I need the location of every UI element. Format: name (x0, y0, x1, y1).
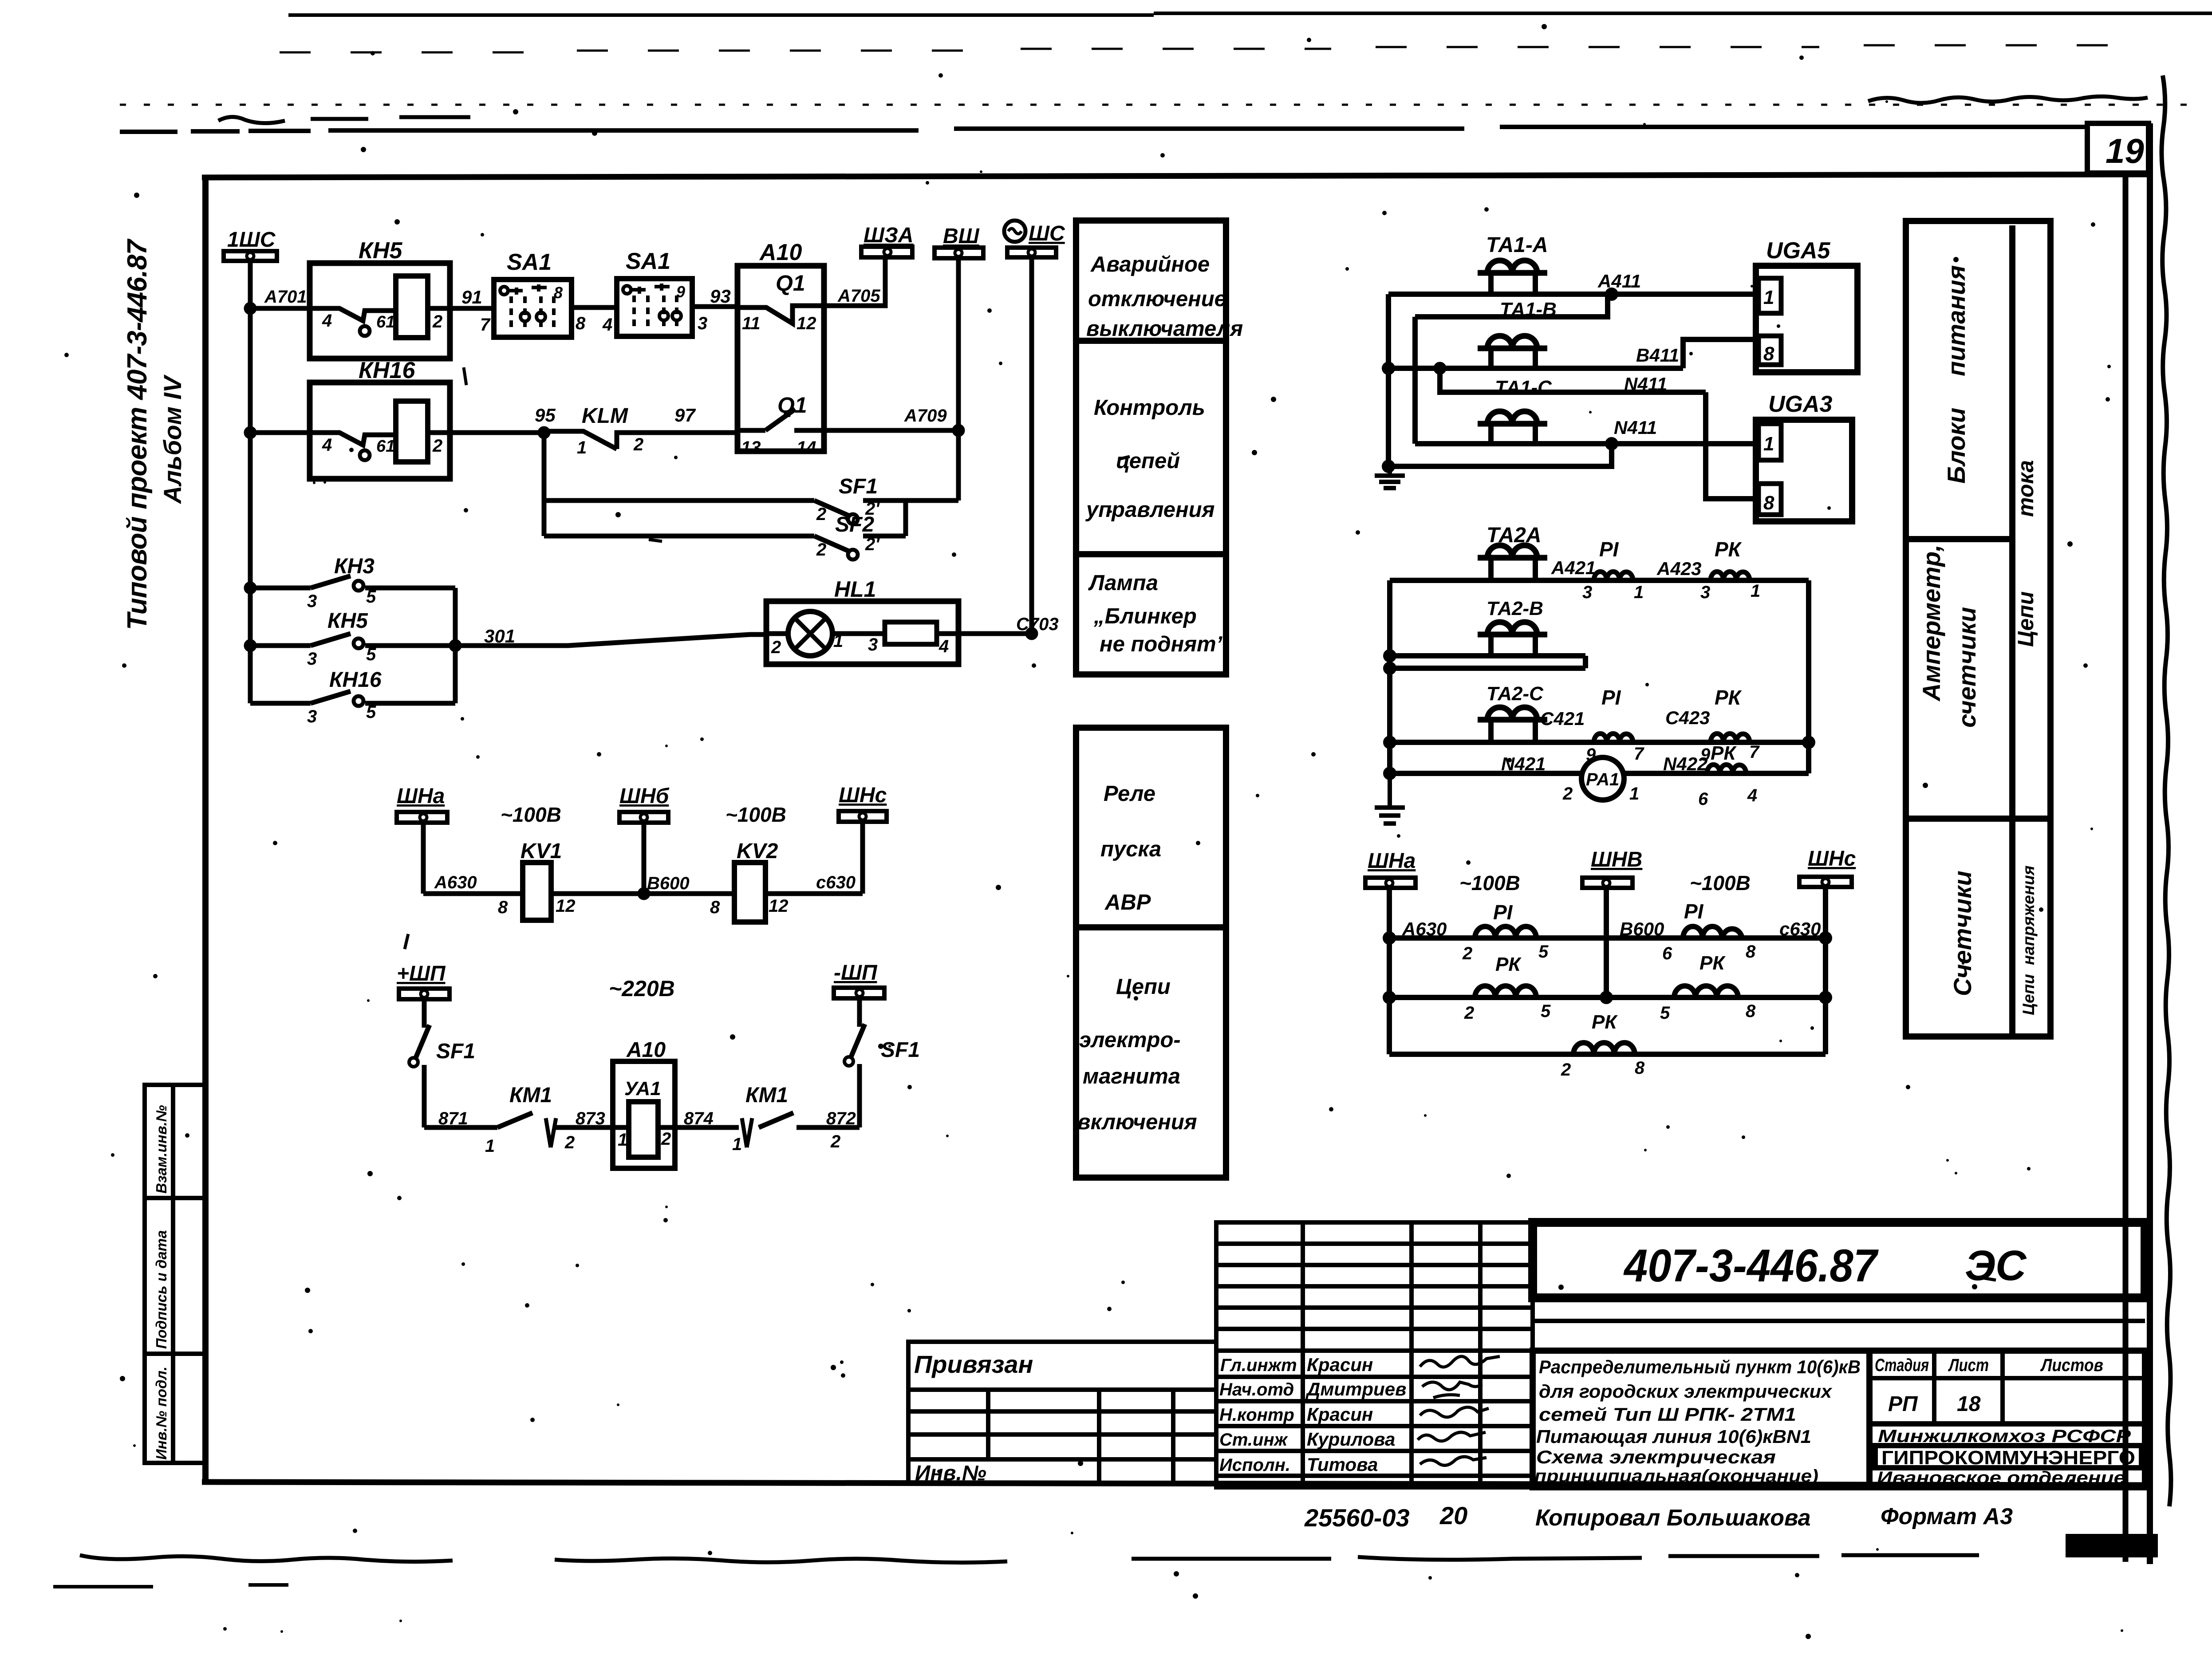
svg-text:+ШП: +ШП (397, 962, 446, 985)
svg-text:1: 1 (577, 438, 587, 457)
svg-text:UGA3: UGA3 (1768, 391, 1833, 417)
svg-text:Амперметр,: Амперметр, (1917, 544, 1945, 702)
svg-text:8: 8 (1746, 1001, 1756, 1021)
svg-text:7: 7 (1634, 744, 1644, 764)
svg-text:1: 1 (833, 631, 843, 651)
svg-text:питания: питания (1942, 265, 1970, 376)
svg-text:ШЗА: ШЗА (864, 224, 914, 247)
svg-text:2: 2 (830, 1132, 840, 1151)
svg-text:Привязан: Привязан (914, 1350, 1033, 1378)
svg-text:КН3: КН3 (334, 555, 375, 578)
svg-text:С703: С703 (1016, 615, 1059, 634)
svg-text:872: 872 (826, 1109, 856, 1128)
svg-text:Курилова: Курилова (1307, 1429, 1395, 1450)
svg-text:3: 3 (307, 591, 317, 611)
svg-text:UGA5: UGA5 (1766, 238, 1831, 264)
svg-text:Красин: Красин (1307, 1404, 1373, 1425)
svg-text:301: 301 (484, 626, 515, 646)
svg-text:5: 5 (366, 702, 376, 722)
svg-text:А630: А630 (1402, 918, 1447, 939)
svg-text:ТА1-С: ТА1-С (1495, 377, 1552, 398)
svg-text:~220В: ~220В (609, 976, 675, 1001)
svg-text:Цепи: Цепи (1116, 975, 1171, 999)
svg-text:АВР: АВР (1104, 891, 1151, 914)
svg-text:КМ1: КМ1 (745, 1084, 788, 1107)
svg-text:РI: РI (1684, 900, 1704, 923)
svg-text:А701: А701 (264, 287, 307, 307)
svg-text:А705: А705 (837, 286, 880, 306)
svg-text:1: 1 (1751, 581, 1760, 601)
svg-text:РА1: РА1 (1586, 770, 1619, 789)
svg-text:20: 20 (1439, 1502, 1467, 1529)
svg-text:сетей Тип Ш РПК- 2ТМ1: сетей Тип Ш РПК- 2ТМ1 (1539, 1404, 1796, 1425)
svg-text:С421: С421 (1540, 708, 1585, 729)
svg-text:8: 8 (1763, 492, 1774, 514)
svg-text:1: 1 (1634, 583, 1644, 602)
svg-text:5: 5 (1541, 1001, 1551, 1021)
svg-text:KLM: KLM (582, 404, 628, 428)
svg-text:Стадия: Стадия (1875, 1356, 1929, 1375)
svg-text:ВШ: ВШ (943, 225, 980, 248)
svg-text:4: 4 (322, 311, 332, 331)
svg-text:Q1: Q1 (776, 271, 805, 296)
svg-text:12: 12 (796, 314, 816, 333)
svg-text:SF2: SF2 (835, 513, 874, 536)
svg-text:8: 8 (498, 898, 508, 917)
svg-text:ТА2А: ТА2А (1486, 524, 1542, 547)
svg-text:7: 7 (480, 315, 491, 335)
svg-text:3: 3 (307, 707, 317, 726)
svg-text:19: 19 (2106, 131, 2144, 170)
svg-text:А10: А10 (759, 240, 802, 265)
svg-text:с630: с630 (1779, 918, 1821, 939)
svg-text:ГИПРОКОММУНЭНЕРГО: ГИПРОКОММУНЭНЕРГО (1881, 1447, 2135, 1469)
svg-text:873: 873 (576, 1109, 605, 1128)
svg-text:Альбом IV: Альбом IV (158, 374, 186, 504)
svg-text:2: 2 (432, 312, 442, 331)
svg-text:Ивановское отделение: Ивановское отделение (1877, 1468, 2125, 1488)
svg-text:25560-03: 25560-03 (1304, 1504, 1410, 1532)
svg-text:8: 8 (710, 898, 720, 917)
svg-text:электро-: электро- (1079, 1028, 1181, 1052)
svg-text:Инв.№: Инв.№ (915, 1462, 986, 1485)
svg-text:SA1: SA1 (507, 249, 552, 275)
svg-text:4: 4 (322, 435, 332, 455)
svg-text:принципиальная(окончание): принципиальная(окончание) (1534, 1466, 1818, 1486)
svg-text:5: 5 (366, 587, 376, 607)
svg-text:61: 61 (376, 313, 395, 331)
svg-text:А10: А10 (626, 1038, 666, 1062)
svg-text:871: 871 (438, 1109, 468, 1128)
svg-text:КН16: КН16 (359, 358, 415, 383)
svg-text:РК: РК (1699, 952, 1726, 974)
svg-text:Блоки: Блоки (1942, 408, 1970, 484)
svg-text:Минжилкомхоз РСФСР: Минжилкомхоз РСФСР (1878, 1427, 2131, 1446)
svg-text:1: 1 (1629, 784, 1639, 804)
svg-text:12: 12 (556, 896, 576, 916)
svg-text:95: 95 (535, 405, 556, 426)
svg-text:7: 7 (1749, 742, 1760, 762)
svg-text:11: 11 (742, 314, 761, 333)
svg-text:выключателя: выключателя (1086, 317, 1243, 341)
svg-text:93: 93 (710, 286, 731, 307)
svg-text:6: 6 (1698, 789, 1708, 809)
svg-text:8: 8 (1763, 343, 1774, 365)
svg-text:ШНВ: ШНВ (1591, 848, 1642, 871)
svg-text:Распределительный пункт 10(6)к: Распределительный пункт 10(6)кВ (1539, 1356, 1861, 1377)
svg-text:РК: РК (1495, 954, 1522, 975)
svg-text:2: 2 (1464, 1003, 1474, 1023)
svg-text:РI: РI (1601, 686, 1621, 709)
svg-text:-ШП: -ШП (834, 961, 878, 985)
svg-text:ШНс: ШНс (1808, 847, 1856, 871)
svg-text:Ст.инж: Ст.инж (1219, 1430, 1289, 1450)
svg-text:3: 3 (1582, 583, 1592, 602)
svg-text:Подпись и дата: Подпись и дата (153, 1230, 170, 1349)
svg-text:А421: А421 (1551, 557, 1596, 578)
svg-text:4: 4 (602, 315, 612, 335)
svg-text:2: 2 (661, 1129, 671, 1149)
svg-text:„Блинкер: „Блинкер (1093, 604, 1197, 628)
svg-text:HL1: HL1 (834, 577, 876, 602)
svg-text:KV2: KV2 (737, 839, 778, 863)
svg-text:Дмитриев: Дмитриев (1305, 1379, 1406, 1399)
svg-text:КМ1: КМ1 (509, 1084, 552, 1107)
svg-text:отключение: отключение (1088, 287, 1226, 311)
svg-text:8: 8 (1635, 1058, 1645, 1078)
svg-text:8: 8 (576, 314, 586, 333)
svg-text:КН5: КН5 (359, 238, 403, 264)
svg-text:6: 6 (1662, 944, 1672, 963)
svg-text:2: 2 (1462, 944, 1472, 963)
svg-text:пуска: пуска (1100, 837, 1161, 861)
svg-text:2: 2 (816, 504, 826, 524)
svg-text:5: 5 (366, 645, 376, 664)
svg-text:1: 1 (1763, 287, 1774, 308)
svg-text:Титова: Титова (1307, 1454, 1378, 1475)
svg-text:В600: В600 (1620, 918, 1664, 939)
svg-text:Схема электрическая: Схема электрическая (1536, 1446, 1776, 1467)
svg-text:4: 4 (938, 637, 949, 656)
svg-text:~100В: ~100В (726, 803, 786, 826)
svg-text:4: 4 (1747, 786, 1757, 805)
svg-text:УА1: УА1 (624, 1078, 661, 1100)
svg-text:2': 2' (865, 535, 880, 554)
svg-text:Типовой проект 407-3-446.87: Типовой проект 407-3-446.87 (122, 238, 153, 630)
svg-text:КН5: КН5 (327, 609, 368, 633)
svg-text:ТА1-В: ТА1-В (1500, 299, 1557, 320)
svg-text:2: 2 (564, 1133, 575, 1152)
svg-text:2: 2 (1561, 1060, 1571, 1080)
svg-text:5: 5 (1660, 1003, 1670, 1023)
svg-text:А709: А709 (904, 406, 947, 426)
svg-text:ТА2-С: ТА2-С (1486, 683, 1544, 705)
svg-text:3: 3 (1700, 583, 1710, 602)
svg-text:Питающая линия 10(6)кВN1: Питающая линия 10(6)кВN1 (1536, 1426, 1811, 1447)
svg-text:Q1: Q1 (777, 393, 807, 418)
svg-text:8: 8 (554, 284, 563, 302)
svg-text:ШНа: ШНа (397, 784, 445, 808)
svg-text:Цепи: Цепи (2019, 974, 2038, 1015)
svg-text:874: 874 (684, 1109, 714, 1128)
svg-text:N421: N421 (1501, 753, 1546, 774)
svg-text:РП: РП (1888, 1392, 1918, 1416)
svg-text:SA1: SA1 (626, 248, 670, 274)
svg-text:2: 2 (816, 540, 826, 560)
svg-text:3: 3 (307, 649, 317, 669)
svg-text:Н.контр: Н.контр (1219, 1405, 1294, 1425)
svg-text:РК: РК (1715, 538, 1742, 561)
svg-text:РК: РК (1592, 1011, 1618, 1033)
svg-text:Красин: Красин (1307, 1354, 1373, 1375)
svg-text:Контроль: Контроль (1094, 396, 1205, 420)
svg-text:РК: РК (1715, 686, 1742, 709)
svg-text:В411: В411 (1636, 345, 1679, 366)
svg-text:12: 12 (769, 896, 789, 916)
svg-text:14: 14 (796, 438, 816, 457)
svg-text:2: 2 (633, 435, 643, 454)
svg-text:тока: тока (2013, 460, 2038, 517)
svg-text:ШС: ШС (1029, 222, 1065, 245)
svg-text:SF1: SF1 (839, 475, 878, 498)
svg-text:С423: С423 (1665, 707, 1710, 728)
svg-text:N411: N411 (1624, 374, 1667, 394)
svg-text:~100В: ~100В (501, 803, 561, 826)
svg-text:А411: А411 (1597, 271, 1641, 292)
svg-text:цепей: цепей (1116, 449, 1180, 473)
svg-text:ШНб: ШНб (619, 784, 670, 808)
svg-text:А423: А423 (1656, 558, 1701, 579)
svg-text:SF1: SF1 (436, 1040, 475, 1063)
svg-text:Лист: Лист (1948, 1356, 1989, 1375)
svg-text:Инв.№ подл.: Инв.№ подл. (153, 1367, 170, 1460)
svg-text:Аварийное: Аварийное (1090, 252, 1210, 276)
svg-text:напряжения: напряжения (2019, 865, 2038, 965)
svg-text:1: 1 (485, 1136, 495, 1156)
svg-text:КН16: КН16 (329, 668, 382, 692)
svg-text:РК: РК (1711, 742, 1737, 764)
svg-text:SF1: SF1 (881, 1038, 920, 1062)
svg-text:ТА1-А: ТА1-А (1486, 233, 1548, 257)
svg-text:А630: А630 (434, 873, 477, 892)
svg-text:не поднят”: не поднят” (1100, 632, 1227, 656)
svg-text:счетчики: счетчики (1953, 607, 1981, 728)
svg-text:1: 1 (732, 1135, 742, 1154)
svg-text:5: 5 (1538, 942, 1549, 962)
svg-text:97: 97 (674, 405, 696, 426)
svg-text:Лампа: Лампа (1088, 571, 1158, 595)
svg-text:Нач.отд: Нач.отд (1219, 1380, 1294, 1399)
svg-text:Листов: Листов (2040, 1356, 2103, 1375)
svg-text:3: 3 (698, 314, 707, 333)
svg-text:9: 9 (1586, 745, 1596, 765)
svg-text:ЭС: ЭС (1965, 1242, 2027, 1289)
svg-text:Цепи: Цепи (2013, 591, 2038, 647)
svg-text:Копировал Большакова: Копировал Большакова (1535, 1505, 1811, 1531)
svg-text:1: 1 (1763, 433, 1774, 455)
svg-text:Взам.инв.№: Взам.инв.№ (153, 1105, 170, 1194)
svg-text:~100В: ~100В (1459, 871, 1520, 895)
svg-text:РI: РI (1493, 901, 1513, 924)
svg-text:управления: управления (1085, 498, 1214, 522)
svg-text:ШНс: ШНс (839, 784, 887, 807)
svg-text:N422: N422 (1663, 753, 1707, 774)
svg-text:1: 1 (618, 1130, 627, 1150)
svg-text:8: 8 (1746, 942, 1756, 962)
svg-text:ШНа: ШНа (1368, 849, 1416, 873)
svg-text:РI: РI (1599, 538, 1619, 561)
svg-text:~100В: ~100В (1690, 871, 1751, 895)
svg-text:2: 2 (432, 436, 442, 456)
svg-text:N411: N411 (1614, 417, 1657, 438)
svg-text:В600: В600 (647, 874, 690, 893)
svg-text:включения: включения (1077, 1110, 1197, 1134)
svg-text:61: 61 (376, 437, 395, 456)
svg-text:Формат А3: Формат А3 (1881, 1504, 2013, 1529)
svg-text:3: 3 (868, 635, 878, 654)
svg-text:KV1: KV1 (520, 839, 562, 863)
svg-text:ТА2-В: ТА2-В (1486, 598, 1543, 619)
svg-text:магнита: магнита (1083, 1064, 1180, 1088)
svg-text:18: 18 (1957, 1392, 1981, 1416)
svg-text:для городских электрических: для городских электрических (1539, 1381, 1833, 1402)
svg-text:Исполн.: Исполн. (1219, 1455, 1290, 1475)
svg-text:2: 2 (771, 638, 781, 657)
svg-text:Счетчики: Счетчики (1948, 871, 1976, 996)
svg-text:407-3-446.87: 407-3-446.87 (1623, 1240, 1879, 1292)
svg-text:2: 2 (1562, 784, 1573, 804)
svg-text:Реле: Реле (1104, 782, 1155, 806)
svg-text:1ШС: 1ШС (227, 228, 276, 252)
svg-text:91: 91 (461, 287, 482, 307)
svg-text:Гл.инжт: Гл.инжт (1220, 1356, 1297, 1375)
svg-text:13: 13 (741, 438, 761, 457)
svg-text:с630: с630 (816, 873, 856, 892)
svg-text:9: 9 (676, 283, 685, 301)
